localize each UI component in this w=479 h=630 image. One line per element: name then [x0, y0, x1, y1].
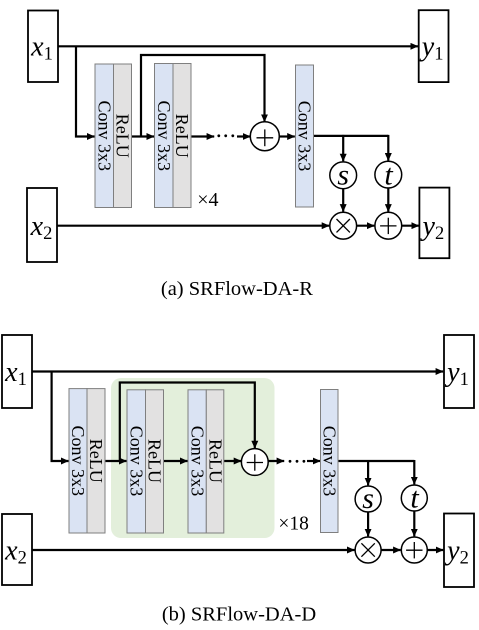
block conv3 single (a) [295, 65, 315, 207]
svg-text:(a) SRFlow-DA-R: (a) SRFlow-DA-R [161, 278, 313, 300]
block conv1 (a) [95, 64, 115, 208]
box x2 (b) [2, 514, 32, 585]
wire plus to conv3 [280, 135, 295, 137]
node t (a) [375, 158, 402, 191]
svg-text:ReLU: ReLU [145, 439, 165, 483]
box x2 [27, 188, 57, 262]
svg-text:Conv 3x3: Conv 3x3 [127, 426, 147, 497]
svg-text:ReLU: ReLU [86, 439, 106, 483]
box y2 (b) [444, 514, 474, 588]
wire into plus circle [237, 135, 250, 137]
wire plus output arrow (b) [268, 460, 284, 462]
wire plus2 to y2 (b) [427, 549, 443, 551]
wire drop into conv1 (b) [52, 372, 69, 462]
svg-text:(b) SRFlow-DA-D: (b) SRFlow-DA-D [162, 604, 316, 626]
wire x2 line into times (b) [32, 549, 355, 551]
block relu2 (b) [145, 390, 165, 533]
svg-text:Conv 3x3: Conv 3x3 [95, 101, 115, 172]
node plus2 (a) [375, 212, 402, 239]
wire arrow down into s [342, 135, 344, 161]
svg-text:t: t [410, 481, 419, 514]
svg-text:Conv 3x3: Conv 3x3 [187, 426, 207, 497]
block conv1 (b) [68, 389, 88, 533]
svg-text:s: s [337, 158, 349, 191]
wire t to plus2 (b) [413, 511, 415, 536]
wire arrow down into t [387, 135, 389, 161]
wire conv4 output splitting to s and t (b) [338, 460, 414, 462]
svg-text:Conv 3x3: Conv 3x3 [68, 426, 88, 497]
box y2 [419, 188, 449, 259]
node times (b) [355, 537, 381, 563]
node plus-sum (a) [250, 122, 279, 151]
wire conv3 output splitting to s and t [314, 135, 389, 137]
wire block2 to block3 (b) [164, 460, 188, 462]
wire times to plus2 (b) [381, 549, 401, 551]
wire into conv4 (b) [307, 460, 320, 462]
wire plus2 to y2 [402, 225, 419, 227]
block conv4 single (b) [319, 390, 339, 533]
node s (b) [355, 482, 381, 515]
wire block1 to block2 with junction [132, 135, 155, 137]
wire drop from main line into first conv [76, 46, 95, 137]
dots ellipsis top [217, 134, 234, 137]
svg-text:×4: ×4 [197, 189, 218, 211]
block conv2 (b) [127, 390, 147, 533]
box y1 (b) [444, 335, 474, 408]
block relu1 (a) [113, 64, 133, 208]
svg-text:Conv 3x3: Conv 3x3 [154, 101, 174, 172]
svg-text:×18: ×18 [278, 514, 309, 535]
wire s to times (b) [367, 512, 369, 536]
block conv3 (b) [187, 390, 207, 533]
wire x1 main line to y1 [58, 45, 418, 47]
wire block1 to block2 with junction (b) [105, 460, 127, 462]
wire s to times [342, 189, 344, 212]
box x1 (b) [2, 335, 32, 408]
wire times to plus2 [357, 225, 375, 227]
node t (b) [401, 481, 427, 514]
node plus-sum (b) [241, 449, 268, 476]
wire residual bypass up and over to plus [141, 55, 265, 137]
svg-text:Conv 3x3: Conv 3x3 [295, 101, 315, 172]
block relu3 (b) [205, 390, 225, 533]
node times (a) [330, 212, 357, 239]
block relu2 (a) [172, 64, 192, 208]
wire arrow down into s (b) [367, 460, 369, 485]
block relu1 (b) [86, 389, 106, 533]
wire t to plus2 [387, 188, 389, 212]
green residual group background [111, 378, 275, 538]
svg-text:ReLU: ReLU [205, 439, 225, 483]
svg-text:t: t [384, 158, 393, 191]
svg-text:Conv 3x3: Conv 3x3 [319, 426, 339, 497]
wire x1 main line to y1 (b) [32, 370, 443, 372]
wire block3 to plus (b) [224, 460, 242, 462]
svg-text:ReLU: ReLU [113, 114, 133, 158]
wire arrow down into t (b) [413, 460, 415, 484]
node s (a) [330, 158, 357, 191]
block conv2 (a) [154, 64, 174, 208]
wire residual skip inside green (b) [120, 383, 255, 462]
wire x2 line into times [57, 225, 329, 227]
dots ellipsis bottom [289, 460, 306, 463]
node plus2 (b) [401, 537, 427, 563]
svg-text:ReLU: ReLU [172, 114, 192, 158]
wire block2 output arrow [191, 135, 214, 137]
box y1 [419, 10, 449, 82]
box x1 [28, 11, 58, 83]
svg-text:s: s [362, 482, 374, 515]
